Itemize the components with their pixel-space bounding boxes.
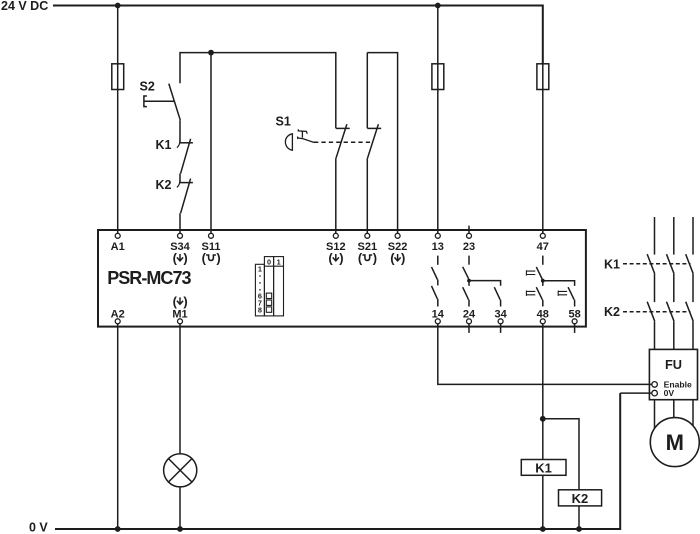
node K1/K2 branch junction (540, 416, 546, 422)
svg-text:8: 8 (258, 305, 262, 314)
svg-text:K2: K2 (604, 305, 620, 319)
wire K1 to 0V (542, 475, 544, 529)
contactor coil K1 (521, 460, 566, 476)
wire A2 to 0V (117, 324, 119, 529)
wire M1 to lamp (179, 324, 181, 454)
svg-text:14: 14 (432, 308, 445, 320)
contact 13-14 (inside) (432, 256, 438, 307)
svg-text:34: 34 (494, 308, 507, 320)
svg-text:13: 13 (432, 241, 444, 253)
wire S12 (335, 158, 337, 233)
terminal 23 (467, 233, 472, 238)
svg-text:(: ( (358, 251, 363, 266)
contact K2 (NC feedback) (156, 178, 193, 213)
svg-text:K1: K1 (604, 257, 620, 271)
wire K2-S34 (179, 213, 181, 233)
terminal S12 (333, 233, 338, 238)
svg-text:): ) (373, 251, 377, 266)
contact K1 (NC feedback) (156, 138, 193, 173)
svg-text:A1: A1 (111, 241, 125, 253)
wire lamp to 0V (179, 487, 181, 529)
0 V rail (29, 393, 620, 534)
wire FU 0V return (620, 392, 652, 394)
svg-text:): ) (183, 294, 187, 309)
svg-text:K2: K2 (572, 491, 589, 506)
contact 47-58 branch (forcibly guided, inside) (543, 281, 575, 307)
svg-text:K1: K1 (535, 460, 552, 475)
svg-text:K1: K1 (156, 138, 172, 152)
terminal 58 stub (574, 324, 576, 333)
wire A1 feeder (117, 6, 119, 234)
S11 sub symbol (pulse) (202, 251, 221, 266)
svg-text:S2: S2 (140, 80, 155, 94)
terminal 13 (435, 233, 440, 238)
mechanical link dashed S1 (314, 141, 373, 143)
fuse F3 (537, 64, 549, 90)
pushbutton S2 (140, 80, 181, 121)
S21 sub symbol (pulse) (358, 251, 377, 266)
svg-text:A2: A2 (111, 308, 125, 320)
svg-text:0 V: 0 V (29, 521, 48, 534)
svg-text:1: 1 (258, 265, 262, 274)
svg-text:24 V DC: 24 V DC (1, 0, 48, 13)
contact 47-48 (forcibly guided, inside) (526, 256, 542, 307)
terminal S22 (395, 233, 400, 238)
wire 48 down (542, 324, 544, 460)
terminal A2 (115, 319, 120, 324)
wire 47 feeder (542, 64, 544, 233)
24 V DC rail (1, 0, 543, 64)
K1 main contact L3 (686, 254, 694, 274)
junction dot K1/0V (540, 526, 546, 532)
S12 sub symbol (down) (328, 251, 343, 266)
DIP switch block (255, 257, 283, 316)
junction dot rail/A1 (115, 3, 121, 9)
wire S11 (210, 53, 212, 234)
wire K2 to 0V (578, 506, 580, 529)
contact 23-34 branch (inside) (469, 281, 501, 307)
wire K2 branch (543, 419, 579, 490)
svg-text:(: ( (202, 251, 207, 266)
node S11 junction (208, 50, 214, 56)
terminal 34 stub (500, 324, 502, 333)
svg-text:M1: M1 (172, 308, 187, 320)
fuse F2 (432, 64, 444, 90)
svg-text:K2: K2 (156, 178, 172, 192)
motor M (650, 418, 699, 467)
svg-text:23: 23 (463, 241, 475, 253)
terminal 23 stub (468, 226, 470, 234)
K2 main contact L3 (686, 302, 694, 322)
contact 23-24 (inside) (463, 256, 469, 307)
phase L2 wire (673, 217, 675, 255)
svg-text:1: 1 (277, 257, 281, 266)
phase L3 wire (692, 217, 694, 255)
svg-text:0V: 0V (664, 388, 675, 398)
phase L1 wire (654, 217, 656, 255)
contactor coil K2 (559, 490, 602, 506)
terminal 58 (572, 319, 577, 324)
terminal A1 (115, 233, 120, 238)
K2 main contact L2 (667, 302, 675, 322)
svg-text:S1: S1 (276, 115, 291, 129)
safety relay U1 PSR-MC73 (98, 230, 586, 327)
wire S2-K1 (179, 120, 181, 143)
svg-text:): ) (401, 251, 405, 266)
wire 13 feeder (437, 6, 439, 234)
wire 14 to FU Enable (438, 324, 652, 385)
terminal 24 stub (468, 324, 470, 333)
svg-text:): ) (339, 251, 343, 266)
terminal S11 (209, 233, 214, 238)
svg-text:48: 48 (537, 308, 549, 320)
terminal 14 (435, 319, 440, 324)
S22 sub symbol (down) (390, 251, 405, 266)
wire FU to motor L1 (654, 400, 656, 429)
contact S1 ch2 (NC) (367, 124, 381, 158)
svg-text:): ) (183, 251, 187, 266)
terminal S34 (178, 233, 183, 238)
wire K1-K2 (179, 173, 181, 182)
svg-text:): ) (216, 251, 220, 266)
junction dot rail/13 (435, 3, 441, 9)
terminal S21 (365, 233, 370, 238)
svg-text:47: 47 (537, 241, 549, 253)
M1 sub symbol (down) (173, 294, 188, 309)
node 47 junction (541, 279, 545, 283)
terminal 47 (540, 233, 545, 238)
svg-text:M: M (666, 430, 684, 455)
junction dot A2/0V (115, 526, 121, 532)
svg-text:58: 58 (568, 308, 580, 320)
wire top link S2-S11-S12 (180, 53, 336, 129)
wire FU to motor L2 (673, 400, 675, 418)
wire FU to motor L3 (692, 400, 694, 426)
terminal 48 (540, 319, 545, 324)
svg-text:0: 0 (267, 257, 271, 266)
junction dot lamp/0V (177, 526, 183, 532)
junction dot K2/0V (576, 526, 582, 532)
terminal 24 (467, 319, 472, 324)
terminal M1 (178, 319, 183, 324)
node 23 junction (467, 279, 471, 283)
K2 main contact L1 (647, 302, 655, 322)
S34 sub symbol (down) (173, 251, 188, 266)
indicator lamp (164, 454, 197, 487)
terminal 34 (498, 319, 503, 324)
fuse F1 (112, 64, 124, 90)
svg-text:FU: FU (665, 357, 682, 372)
svg-text:24: 24 (463, 308, 476, 320)
K1 main contact L2 (667, 254, 675, 274)
switch S1 label/actuator (276, 115, 317, 151)
wire top link S21-S22 (367, 53, 397, 234)
contact S1 ch1 (NC) (336, 124, 350, 158)
wire S21 (366, 158, 368, 233)
frequency drive FU (649, 349, 697, 399)
K1 main contact L1 (647, 254, 655, 274)
svg-text:PSR-MC73: PSR-MC73 (107, 268, 191, 288)
